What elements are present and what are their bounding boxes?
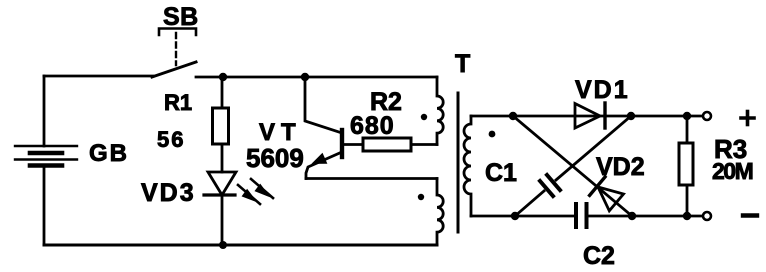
capacitor C2 bbox=[576, 204, 587, 227]
label - bbox=[743, 213, 757, 217]
svg-text:R1: R1 bbox=[164, 90, 192, 115]
polarity dot: secondary winding bbox=[489, 131, 496, 138]
node: bottom rail / VD3 branch junction bbox=[219, 241, 227, 249]
wire: secondary top rail bbox=[471, 115, 703, 118]
wire: bottom rail bbox=[44, 244, 437, 247]
wire: R3 bottom lead bbox=[686, 185, 689, 216]
transformer T: core bbox=[457, 93, 460, 232]
pushbutton SB: button cap bracket bbox=[159, 29, 196, 36]
svg-text:C1: C1 bbox=[485, 159, 517, 187]
node: top rail R3 junction bbox=[683, 112, 691, 120]
LED VD3: cathode bar bbox=[204, 193, 235, 196]
transformer T: primary winding bottom bbox=[437, 179, 443, 246]
svg-text:GB: GB bbox=[89, 140, 129, 167]
resistor R3 bbox=[679, 143, 693, 185]
label + bbox=[741, 112, 754, 125]
wire: secondary bottom rail right of C2 bbox=[589, 215, 703, 218]
wire: R1 to VD3 bbox=[221, 144, 224, 172]
svg-text:20M: 20M bbox=[712, 158, 753, 184]
svg-text:56: 56 bbox=[157, 127, 185, 152]
svg-text:VD2: VD2 bbox=[596, 153, 645, 181]
capacitor C1 bbox=[540, 175, 560, 196]
pushbutton SB: actuator dashed link bbox=[175, 33, 177, 65]
wire: top rail from switch to transformer bbox=[196, 76, 437, 79]
wire: R1 top lead bbox=[221, 77, 224, 108]
diode VD1: triangle bbox=[575, 104, 600, 129]
terminal: - output bbox=[703, 212, 711, 220]
svg-text:T: T bbox=[455, 50, 470, 78]
svg-text:SB: SB bbox=[163, 3, 199, 31]
resistor R2 bbox=[363, 138, 411, 151]
diode VD1: cathode bar bbox=[603, 103, 606, 128]
transistor VT: base bar bbox=[340, 130, 344, 157]
LED VD3: emission arrow 1 bbox=[238, 185, 260, 204]
wire: left battery column bottom bbox=[43, 166, 46, 246]
LED VD3: emission arrow 2 bbox=[251, 179, 273, 198]
LED VD3: triangle bbox=[208, 172, 236, 195]
transistor VT: emitter lead with arrow bbox=[306, 152, 342, 179]
wire: R2 to top winding bottom bbox=[411, 143, 437, 146]
transformer T: secondary winding bbox=[464, 116, 471, 216]
battery GB bbox=[15, 146, 77, 166]
svg-text:VD3: VD3 bbox=[141, 179, 196, 207]
diode VD2: triangle bbox=[598, 187, 624, 211]
polarity dot: bottom winding bbox=[418, 194, 424, 200]
svg-text:VD1: VD1 bbox=[575, 76, 630, 104]
diode VD2: cathode bar bbox=[590, 177, 605, 195]
resistor R1 bbox=[213, 108, 229, 144]
svg-text:680: 680 bbox=[350, 112, 395, 140]
wire: emitter rail to bottom winding bbox=[306, 177, 437, 180]
transformer T: primary winding top bbox=[437, 77, 443, 145]
wire: diagonal with VD2 (top-left to bottom-right) bbox=[513, 116, 632, 216]
wire: top rail from battery to switch bbox=[44, 75, 153, 78]
transistor VT: collector lead bbox=[305, 77, 342, 133]
node: top rail right junction bbox=[627, 112, 635, 120]
node: top rail / collector branch bbox=[301, 73, 309, 81]
node: top rail left junction bbox=[509, 112, 517, 120]
wire: VD3 to bottom rail bbox=[221, 195, 224, 245]
node: bottom rail right junction bbox=[628, 212, 636, 220]
wire: diagonal with C1 (bottom-left to top-right), lower segment bbox=[515, 191, 544, 216]
terminal: + output bbox=[703, 112, 711, 120]
svg-text:5609: 5609 bbox=[246, 143, 304, 173]
node: bottom rail left junction bbox=[511, 212, 519, 220]
node: bottom rail R3 junction bbox=[683, 212, 691, 220]
node: top rail / R1 branch bbox=[219, 73, 227, 81]
svg-text:C2: C2 bbox=[583, 242, 615, 267]
wire: base to R2 bbox=[342, 143, 363, 146]
wire: secondary bottom rail left of C2 bbox=[471, 215, 574, 218]
wire: R3 top lead bbox=[686, 116, 689, 143]
svg-text:VT: VT bbox=[259, 119, 302, 146]
pushbutton SB: lever bbox=[152, 62, 196, 77]
wire: diagonal with C1, upper segment bbox=[556, 116, 631, 180]
polarity dot: top winding bbox=[421, 114, 427, 120]
wire: left battery column top bbox=[43, 76, 46, 146]
